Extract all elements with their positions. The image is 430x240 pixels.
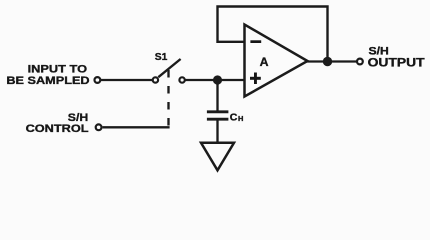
svg-text:OUTPUT: OUTPUT	[368, 57, 425, 69]
svg-text:A: A	[260, 55, 269, 69]
svg-text:H: H	[238, 114, 243, 123]
svg-text:BE SAMPLED: BE SAMPLED	[6, 75, 89, 87]
svg-text:INPUT TO: INPUT TO	[28, 64, 88, 76]
svg-text:CONTROL: CONTROL	[26, 123, 89, 135]
svg-text:S/H: S/H	[369, 46, 389, 58]
svg-text:S1: S1	[155, 51, 168, 63]
svg-text:C: C	[230, 111, 238, 123]
